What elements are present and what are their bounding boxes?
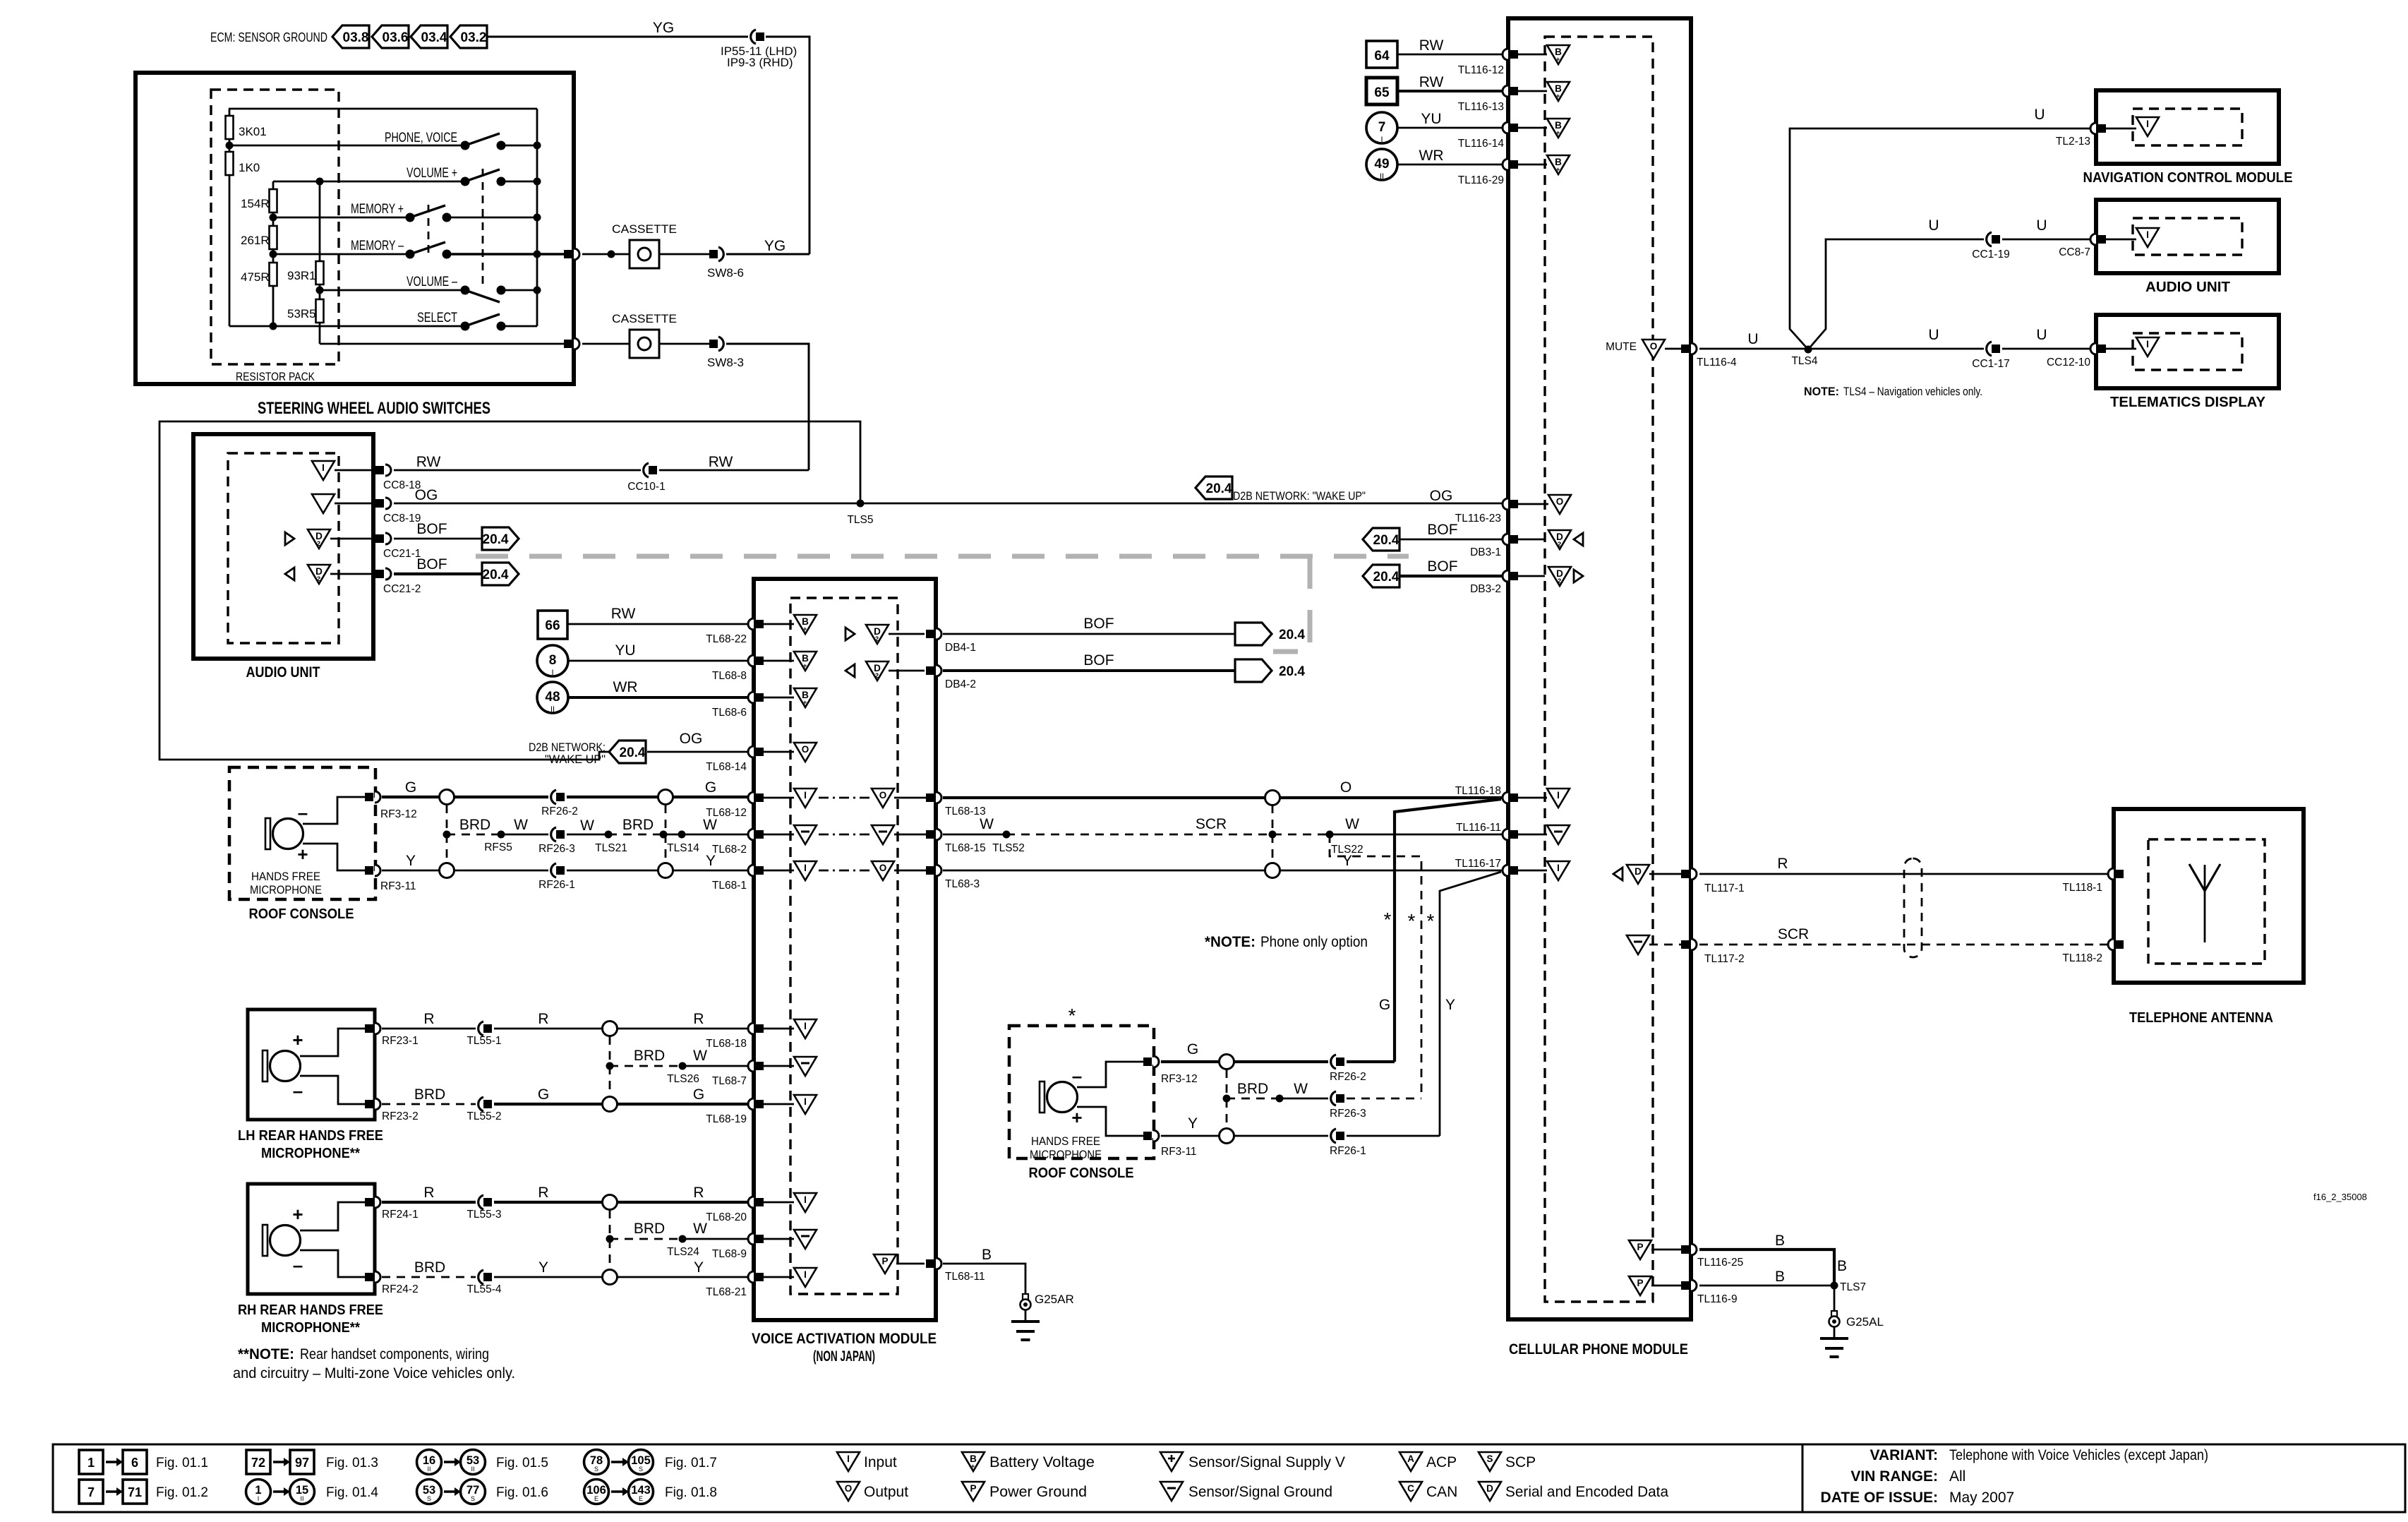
- connector inline (Y row, rc2): [1220, 1129, 1234, 1144]
- pin TL116-29: [1458, 159, 1547, 186]
- legend fig 01.8: [584, 1480, 717, 1504]
- wire RW CC8-18 to CC10-1: [394, 454, 641, 470]
- wire BRD RF24-2 to TL55-4: [382, 1259, 476, 1277]
- svg-text:–: –: [298, 802, 308, 823]
- svg-text:7: 7: [88, 1485, 95, 1499]
- svg-text:I: I: [1557, 790, 1560, 801]
- connector inline (LH G row): [603, 1097, 618, 1112]
- node on dashed link (W row): [1269, 831, 1277, 839]
- symbol sensor ground (CC8-19): [312, 494, 335, 513]
- svg-text:G: G: [1187, 1041, 1198, 1057]
- pin CC8-19: [335, 498, 421, 525]
- pin TL118-1: [2062, 868, 2124, 894]
- antenna symbol: [2189, 864, 2220, 942]
- switch VOLUME+: [461, 169, 506, 186]
- note TLS4 navigation only: [1804, 385, 1982, 398]
- svg-text:RF3-11: RF3-11: [1161, 1146, 1197, 1158]
- svg-text:+: +: [297, 844, 308, 865]
- svg-text:TL117-2: TL117-2: [1704, 953, 1745, 965]
- svg-text:U: U: [1928, 327, 1939, 343]
- wire R TL117-1 to TL118-1: [1699, 856, 2107, 874]
- svg-text:SELECT: SELECT: [417, 311, 457, 325]
- connector TL55-3: [466, 1195, 501, 1221]
- svg-text:TL116-14: TL116-14: [1458, 138, 1505, 150]
- svg-text:W: W: [1294, 1081, 1308, 1097]
- symbol D2 out (DB4-1): [845, 625, 889, 644]
- svg-text:RW: RW: [709, 454, 733, 470]
- svg-text:I: I: [804, 1269, 807, 1280]
- svg-text:W: W: [980, 816, 994, 832]
- wire Y to TL68-1: [673, 853, 749, 870]
- symbol output (TL68-13): [872, 789, 894, 808]
- svg-text:RF3-12: RF3-12: [380, 808, 417, 820]
- svg-text:Y: Y: [406, 853, 416, 869]
- wire internal dash-dot row TL68-2: [819, 834, 870, 836]
- svg-text:–: –: [293, 1254, 303, 1276]
- svg-text:03.4: 03.4: [421, 30, 447, 45]
- node TLS5: [847, 500, 873, 527]
- cassette symbol (SW8-3): [612, 312, 677, 358]
- svg-text:(NON JAPAN): (NON JAPAN): [813, 1348, 875, 1365]
- node PHONE VOICE tap: [226, 142, 234, 150]
- svg-text:TL68-1: TL68-1: [712, 880, 747, 892]
- connector inline (Y row): [1265, 863, 1280, 878]
- wire U TLS4 to audio unit: [1808, 217, 1984, 349]
- off-page arrow 20.4 (DB4-2): [1235, 659, 1305, 682]
- svg-text:03.2: 03.2: [461, 30, 487, 45]
- wire Y RF3-11 to circle: [382, 853, 439, 870]
- connector RF26-1: [538, 863, 575, 891]
- wire cassette to SW8-6: [660, 253, 709, 256]
- connector circle 7: [1366, 112, 1397, 144]
- svg-text:G: G: [538, 1086, 549, 1103]
- svg-text:B: B: [1837, 1258, 1847, 1274]
- svg-text:O: O: [845, 1483, 853, 1494]
- svg-text:YU: YU: [1421, 111, 1441, 127]
- svg-text:*: *: [1068, 1005, 1076, 1026]
- microphone symbol: [265, 818, 303, 849]
- pin TL2-13: [2056, 123, 2136, 148]
- svg-text:A: A: [1407, 1454, 1414, 1464]
- symbol battery voltage (TL116-12): [1547, 45, 1570, 64]
- pin DB4-1: [889, 628, 976, 654]
- svg-text:CELLULAR PHONE MODULE: CELLULAR PHONE MODULE: [1509, 1341, 1688, 1358]
- svg-text:**NOTE:: **NOTE:: [238, 1346, 294, 1362]
- pin TL68-14: [706, 746, 794, 773]
- svg-text:Sensor/Signal Ground: Sensor/Signal Ground: [1188, 1484, 1332, 1500]
- resistor 3K01: [226, 109, 267, 145]
- wire VOLUME- row: [320, 275, 537, 290]
- node splice SW8-6: [608, 251, 615, 258]
- wire BOF CC21-2: [394, 556, 482, 574]
- pin DB3-2: [1470, 570, 1545, 595]
- link dashed G-Y (col1): [446, 805, 448, 863]
- svg-text:TELEMATICS DISPLAY: TELEMATICS DISPLAY: [2110, 395, 2266, 410]
- svg-text:+: +: [1556, 56, 1560, 64]
- label RESISTOR PACK: [236, 370, 315, 383]
- svg-text:BOF: BOF: [1427, 558, 1457, 575]
- audio unit dashed box: [228, 453, 339, 643]
- svg-text:Y: Y: [1445, 997, 1455, 1013]
- pin TL117-1: [1649, 868, 1745, 894]
- svg-text:O: O: [879, 790, 887, 801]
- svg-text:AUDIO UNIT: AUDIO UNIT: [2145, 280, 2230, 295]
- pin TL68-7: [712, 1060, 794, 1087]
- voice activation module dashed box: [790, 598, 898, 1294]
- wire to cassette SW8-6: [582, 253, 630, 256]
- pin TL117-2: [1649, 939, 1745, 965]
- wire BRD RF23-2 to TL55-2: [382, 1086, 476, 1104]
- connector TL55-4: [466, 1270, 501, 1295]
- connector RF26-3 (2): [1330, 1091, 1366, 1120]
- svg-text:TL68-2: TL68-2: [712, 844, 747, 856]
- node bus PHONE VOICE: [534, 142, 541, 150]
- label RH REAR HANDS FREE MICROPHONE**: [238, 1302, 383, 1336]
- svg-text:TL118-2: TL118-2: [2062, 952, 2102, 964]
- svg-text:RW: RW: [1419, 74, 1444, 90]
- svg-text:20.4: 20.4: [1373, 570, 1399, 585]
- svg-text:BOF: BOF: [1083, 652, 1114, 669]
- svg-text:W: W: [1345, 816, 1359, 832]
- telematics display box: [2096, 315, 2279, 388]
- legend fig 01.1: [79, 1450, 208, 1474]
- symbol D2 (DB3-2): [1548, 567, 1583, 586]
- svg-text:66: 66: [545, 618, 560, 633]
- symbol input (TL68-12): [794, 789, 817, 808]
- svg-text:DB3-1: DB3-1: [1470, 546, 1501, 558]
- label asterisk (roof console 2): [1068, 1005, 1076, 1026]
- resistor 1K0: [226, 145, 260, 326]
- svg-text:3K01: 3K01: [239, 125, 267, 138]
- symbol D2 in (CC21-2): [285, 565, 330, 584]
- wire YG from SW8-6: [726, 238, 809, 254]
- wire B TL116-9: [1699, 1269, 1834, 1286]
- svg-text:W: W: [703, 817, 717, 833]
- label ROOF CONSOLE: [249, 906, 354, 922]
- svg-text:TL68-3: TL68-3: [945, 878, 980, 890]
- pin TL116-13: [1458, 85, 1547, 113]
- node TLS26: [667, 1062, 699, 1086]
- node MEMORY- tap: [270, 251, 277, 258]
- svg-text:G: G: [693, 1086, 704, 1103]
- wire WR 48 to TL68-6: [568, 679, 749, 697]
- svg-text:All: All: [1949, 1468, 1965, 1485]
- svg-text:BRD: BRD: [622, 817, 654, 833]
- wire R TL55-1 to module: [494, 1011, 749, 1029]
- pin TL68-19: [706, 1098, 794, 1125]
- svg-text:I: I: [847, 1454, 850, 1464]
- audio unit right dashed box: [2133, 218, 2242, 255]
- wire G TL55-2 to module: [494, 1086, 749, 1104]
- svg-text:CC8-19: CC8-19: [383, 513, 421, 525]
- cellular phone module box: [1508, 18, 1691, 1319]
- switch SELECT: [461, 314, 506, 331]
- svg-text:CAN: CAN: [1426, 1484, 1457, 1500]
- node bus VOLUME-: [534, 287, 541, 294]
- svg-text:+: +: [1071, 1107, 1082, 1128]
- svg-text:20.4: 20.4: [483, 568, 509, 582]
- svg-text:Power Ground: Power Ground: [989, 1484, 1087, 1500]
- svg-text:TLS24: TLS24: [667, 1246, 699, 1258]
- svg-text:TL68-19: TL68-19: [706, 1113, 747, 1125]
- wire Y to RF26-1: [454, 870, 548, 872]
- pin TL68-1: [712, 865, 794, 892]
- wire R RF24-1 to TL55-3: [382, 1185, 476, 1202]
- svg-text:48: 48: [545, 690, 560, 705]
- pin TL116-17: [1503, 865, 1547, 876]
- svg-text:AUDIO UNIT: AUDIO UNIT: [246, 664, 320, 681]
- svg-text:TL55-1: TL55-1: [466, 1035, 501, 1047]
- wire cassette to SW8-3: [660, 343, 709, 345]
- svg-text:Fig. 01.1: Fig. 01.1: [156, 1456, 208, 1470]
- svg-text:TELEPHONE ANTENNA: TELEPHONE ANTENNA: [2129, 1010, 2273, 1026]
- svg-text:HANDS FREE: HANDS FREE: [1031, 1134, 1100, 1148]
- wire internal dash-dot row TL68-12: [819, 797, 870, 799]
- node bus MEMORY+: [534, 214, 541, 222]
- legend symbol output: [837, 1482, 908, 1501]
- svg-text:03.8: 03.8: [343, 30, 369, 45]
- wire YG vertical to SW8-6: [766, 37, 809, 254]
- pin TL68-8: [712, 655, 794, 682]
- svg-text:154R: 154R: [241, 197, 270, 210]
- wire YU 7 to TL116-14: [1397, 111, 1503, 128]
- symbol input (TL68-1): [794, 861, 817, 880]
- wire mic internal: [303, 797, 366, 870]
- symbol output (TL116-23): [1548, 495, 1571, 514]
- svg-text:G: G: [705, 779, 716, 796]
- node bus VOLUME+: [534, 178, 541, 186]
- svg-text:TLS52: TLS52: [992, 842, 1025, 854]
- svg-text:2: 2: [1558, 541, 1561, 549]
- pin TL116-12: [1458, 49, 1547, 76]
- svg-text:TL55-2: TL55-2: [466, 1110, 501, 1122]
- svg-text:03.6: 03.6: [383, 30, 409, 45]
- legend symbol power ground: [962, 1482, 1087, 1501]
- svg-text:NAVIGATION CONTROL MODULE: NAVIGATION CONTROL MODULE: [2083, 170, 2293, 186]
- svg-text:YG: YG: [653, 20, 674, 36]
- svg-text:U: U: [2036, 327, 2047, 343]
- link dashed (RH): [609, 1210, 611, 1269]
- wire RW 65 to TL116-13: [1397, 74, 1503, 91]
- svg-text:W: W: [514, 817, 528, 833]
- wire G RF3-12 to circle: [382, 779, 439, 797]
- connector box 66: [538, 611, 567, 639]
- svg-text:U: U: [1747, 331, 1758, 347]
- svg-text:S: S: [1486, 1454, 1493, 1464]
- pin CC8-18: [335, 465, 421, 491]
- wire SCR TL117-2 to TL118-2: [1699, 926, 2107, 945]
- svg-text:72: 72: [251, 1456, 265, 1470]
- label LH REAR HANDS FREE MICROPHONE**: [238, 1128, 383, 1161]
- svg-text:MICROPHONE**: MICROPHONE**: [261, 1320, 360, 1336]
- svg-text:YU: YU: [615, 642, 635, 659]
- svg-text:97: 97: [295, 1456, 309, 1470]
- pin TL116-25: [1651, 1244, 1743, 1269]
- pin RF3-12: [365, 791, 417, 820]
- svg-text:VOLUME –: VOLUME –: [407, 275, 457, 289]
- svg-text:65: 65: [1374, 85, 1390, 100]
- label phone-only asterisks: [1384, 909, 1435, 932]
- symbol battery voltage (row 936): [794, 652, 817, 671]
- svg-text:TL118-1: TL118-1: [2062, 882, 2102, 894]
- voice activation module box: [754, 579, 936, 1320]
- wire BRD to TLS24: [610, 1221, 682, 1239]
- svg-text:2: 2: [1558, 577, 1561, 585]
- link dashed G-Y (col2): [665, 805, 667, 863]
- svg-text:E: E: [594, 1495, 598, 1502]
- svg-text:WR: WR: [1419, 148, 1444, 164]
- svg-text:BRD: BRD: [634, 1048, 665, 1064]
- node TLS14: [660, 831, 700, 855]
- pin TL68-2: [712, 829, 794, 856]
- svg-text:I: I: [1557, 863, 1560, 873]
- symbol battery voltage (TL116-29): [1547, 155, 1570, 174]
- symbol input (TL116-18): [1547, 789, 1570, 808]
- svg-text:May 2007: May 2007: [1949, 1490, 2014, 1506]
- svg-text:VARIANT:: VARIANT:: [1870, 1447, 1938, 1463]
- pin TL116-14: [1458, 122, 1547, 150]
- svg-text:Fig. 01.6: Fig. 01.6: [496, 1485, 548, 1500]
- svg-text:B: B: [1775, 1233, 1785, 1249]
- link dashed MEMORY switches: [428, 205, 430, 253]
- pin TL68-15: [894, 829, 986, 854]
- symbol input (TL2-13): [2136, 117, 2159, 136]
- svg-text:R: R: [538, 1011, 548, 1027]
- svg-text:G: G: [1379, 997, 1390, 1013]
- svg-text:BOF: BOF: [1427, 522, 1457, 538]
- pin TL68-11: [896, 1258, 985, 1283]
- svg-text:BRD: BRD: [414, 1086, 445, 1103]
- svg-text:DB3-2: DB3-2: [1470, 583, 1501, 595]
- node TLS21: [595, 831, 627, 855]
- telephone antenna box: [2114, 809, 2304, 983]
- svg-text:and circuitry – Multi-zone Voi: and circuitry – Multi-zone Voice vehicle…: [233, 1365, 515, 1382]
- svg-text:I: I: [1380, 136, 1383, 144]
- wire BOF DB3-2: [1400, 558, 1503, 576]
- connector RF26-3: [538, 827, 575, 855]
- label HANDS FREE MICROPHONE 2: [1030, 1134, 1102, 1161]
- legend symbol battery voltage: [962, 1452, 1095, 1471]
- wire OG CC8-19 to TL116-23: [394, 487, 1503, 504]
- svg-text:I: I: [804, 790, 807, 801]
- svg-text:TL55-3: TL55-3: [466, 1209, 501, 1221]
- link dashed O-Y rows: [1272, 805, 1274, 863]
- svg-text:DATE OF ISSUE:: DATE OF ISSUE:: [1821, 1490, 1938, 1506]
- wire RW 64 to TL116-12: [1397, 37, 1503, 54]
- legend fig 01.4: [246, 1480, 379, 1504]
- connector circle 49: [1366, 149, 1397, 181]
- svg-text:B: B: [1775, 1269, 1785, 1285]
- svg-text:20.4: 20.4: [620, 745, 646, 760]
- svg-text:S: S: [427, 1495, 431, 1502]
- svg-text:W: W: [580, 817, 594, 834]
- wire WR 49 to TL116-29: [1397, 148, 1503, 164]
- wire G to RF26-2 (2): [1234, 1060, 1328, 1063]
- pin SW8-3 box exit: [564, 338, 579, 349]
- wire R TL55-3 to module: [494, 1185, 749, 1202]
- svg-text:20.4: 20.4: [1206, 481, 1232, 496]
- svg-text:MICROPHONE**: MICROPHONE**: [261, 1146, 360, 1161]
- wire G to TL68-12: [673, 779, 749, 797]
- svg-text:R: R: [1777, 856, 1788, 872]
- legend fig 01.7: [584, 1450, 717, 1475]
- label AUDIO UNIT (right): [2145, 280, 2230, 295]
- svg-text:S: S: [639, 1466, 643, 1473]
- wire YG (steering wheel switches to IP55-11): [486, 20, 748, 37]
- svg-text:OG: OG: [1430, 488, 1453, 504]
- svg-text:DB4-2: DB4-2: [945, 678, 976, 690]
- svg-text:TLS4: TLS4: [1791, 355, 1817, 367]
- wire U CC1-19 to CC8-7: [2002, 217, 2090, 239]
- wire to cassette SW8-3: [582, 343, 630, 345]
- svg-text:R: R: [423, 1011, 434, 1027]
- off-page arrow 20.4 D2B wake-up (voice side): [529, 741, 646, 766]
- wire W TLS22 to TL116-11: [1330, 816, 1503, 834]
- pin CC21-2: [330, 568, 421, 595]
- connector CC1-19: [1972, 232, 2009, 260]
- audio unit right box: [2096, 200, 2279, 273]
- svg-text:U: U: [2036, 217, 2047, 234]
- wire YU 8 to TL68-8: [568, 642, 749, 661]
- wire U TLS4 to navigation module: [1790, 107, 2091, 349]
- svg-text:BOF: BOF: [416, 521, 447, 537]
- svg-text:RFS5: RFS5: [484, 841, 512, 853]
- svg-text:RH REAR HANDS FREE: RH REAR HANDS FREE: [238, 1302, 383, 1318]
- off-page connector 03.4: [411, 25, 447, 48]
- wire PHONE VOICE row: [229, 131, 537, 145]
- symbol output (TL68-14): [794, 743, 817, 762]
- wire LH mic internal: [300, 1029, 366, 1104]
- symbol input (CC12-10): [2136, 337, 2159, 356]
- pin SW8-6 box exit: [564, 248, 579, 260]
- svg-text:+: +: [803, 625, 807, 633]
- connector box 65: [1366, 78, 1397, 104]
- svg-text:O: O: [1650, 341, 1658, 352]
- wire B TL68-11 to ground: [943, 1247, 1025, 1295]
- wire mic 2 internal: [1077, 1062, 1145, 1136]
- off-page arrow 20.4 (DB4-1): [1235, 623, 1305, 645]
- legend fig 01.2: [79, 1480, 208, 1504]
- svg-text:RF26-2: RF26-2: [1330, 1071, 1366, 1083]
- switch MEMORY+: [406, 205, 452, 222]
- wire G RF26-2 to branch: [1347, 1060, 1395, 1063]
- wire BRD RFS5: [447, 817, 501, 834]
- wire W RF26-3 to branch dashed: [1347, 1098, 1421, 1100]
- symbol sensor ground (row 1755): [794, 1230, 817, 1249]
- symbol input I (CC8-18): [312, 461, 335, 480]
- legend symbol ACP: [1399, 1452, 1457, 1471]
- svg-text:RF3-12: RF3-12: [1161, 1073, 1198, 1085]
- svg-text:TL68-15: TL68-15: [945, 842, 986, 854]
- symbol D2 (DB3-1): [1548, 530, 1583, 549]
- svg-text:RF23-1: RF23-1: [382, 1035, 419, 1047]
- legend symbol SCP: [1479, 1452, 1536, 1471]
- svg-text:Output: Output: [864, 1484, 908, 1500]
- wire RH mic internal: [300, 1202, 366, 1277]
- wire Y RF26-1 to branch: [1347, 1135, 1440, 1137]
- svg-text:2: 2: [317, 540, 320, 548]
- svg-text:ROOF CONSOLE: ROOF CONSOLE: [1029, 1166, 1134, 1181]
- svg-text:RESISTOR PACK: RESISTOR PACK: [236, 370, 315, 383]
- off-page arrow 20.4 (DB3-1): [1363, 528, 1399, 551]
- symbol sensor ground (TL68-15): [872, 825, 894, 844]
- svg-text:D2B NETWORK: "WAKE UP": D2B NETWORK: "WAKE UP": [1233, 489, 1366, 503]
- wire MEMORY+ row: [273, 202, 537, 217]
- svg-text:Fig. 01.7: Fig. 01.7: [665, 1456, 717, 1470]
- connector TL55-2: [466, 1097, 501, 1122]
- wire G to RF26-2: [454, 796, 548, 798]
- svg-text:I: I: [2146, 119, 2149, 129]
